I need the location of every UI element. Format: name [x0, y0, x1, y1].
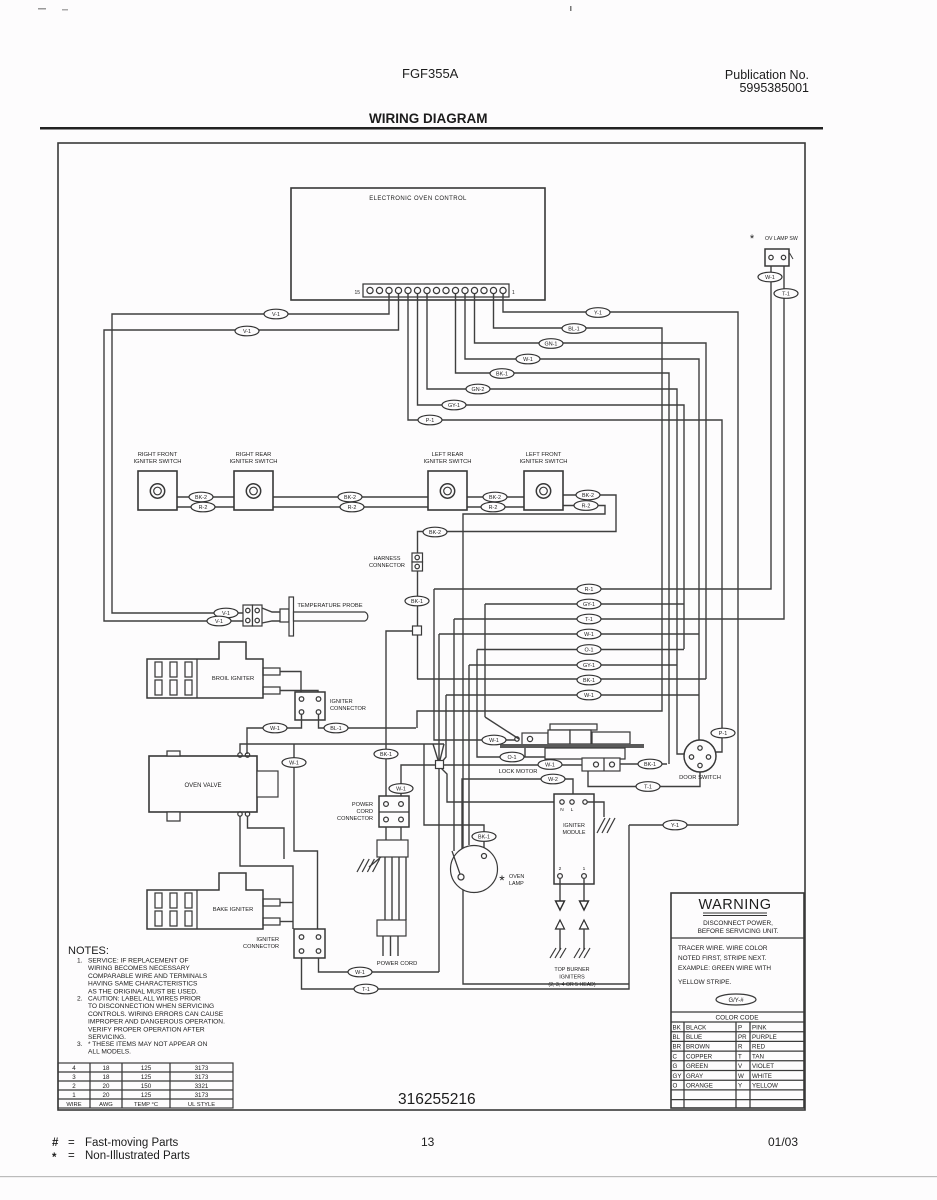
- svg-text:Fast-moving Parts: Fast-moving Parts: [85, 1137, 179, 1149]
- wire label R-2: [574, 501, 598, 511]
- svg-text:OVEN: OVEN: [509, 874, 524, 880]
- svg-text:5995385001: 5995385001: [739, 81, 809, 95]
- svg-text:*: *: [750, 233, 755, 245]
- wire module to ground: [587, 802, 604, 817]
- wire label W-1: [282, 758, 306, 768]
- wire BK-1 row7 to power connector: [386, 631, 412, 801]
- svg-text:W-1: W-1: [289, 761, 299, 767]
- igniter switch RIGHT REAR: [234, 471, 273, 510]
- svg-text:BROIL IGNITER: BROIL IGNITER: [212, 676, 254, 682]
- svg-text:BL-1: BL-1: [330, 726, 341, 732]
- svg-text:CAUTION: LABEL ALL WIRE: CAUTION: LABEL ALL WIRES PRIOR: [88, 996, 201, 1003]
- wire label W-1: [577, 629, 601, 639]
- wire label BK-2: [423, 527, 447, 537]
- wire label BK-1: [638, 759, 662, 769]
- igniter module: [554, 794, 594, 884]
- svg-text:LEFT REAR: LEFT REAR: [432, 452, 464, 458]
- wire label T-1: [636, 782, 660, 792]
- wire label BK-1: [577, 675, 601, 685]
- title underline rule: [40, 127, 823, 130]
- wire label Y-1: [586, 308, 610, 318]
- svg-text:SERVICING.: SERVICING.: [88, 1034, 126, 1041]
- svg-text:O-1: O-1: [508, 755, 517, 761]
- wire label BK-2: [189, 492, 213, 502]
- wire Y-1 pin1: [503, 294, 738, 825]
- svg-text:125: 125: [141, 1074, 152, 1081]
- svg-text:AS THE ORIGINAL MUST BE U: AS THE ORIGINAL MUST BE USED.: [88, 988, 198, 995]
- wire GY-1 ladder row6: [469, 664, 677, 666]
- wire O-1 ladder row5: [477, 649, 684, 651]
- temperature probe connector: [243, 605, 253, 626]
- svg-text:WIRE: WIRE: [66, 1102, 81, 1108]
- wire label R-2: [481, 502, 505, 512]
- svg-text:BK-1: BK-1: [583, 678, 595, 684]
- svg-text:TEMP °C: TEMP °C: [134, 1102, 158, 1108]
- wire label T-1: [577, 614, 601, 624]
- svg-text:W-1: W-1: [270, 726, 280, 732]
- svg-text:COMPARABLE WIRE AND TERMINA: COMPARABLE WIRE AND TERMINALS: [88, 973, 208, 980]
- wire label W-1: [348, 967, 372, 977]
- svg-text:4: 4: [72, 1065, 76, 1072]
- svg-text:G: G: [673, 1063, 678, 1070]
- svg-text:BK-1: BK-1: [644, 762, 656, 768]
- wire label BK-2: [483, 492, 507, 502]
- svg-text:W-1: W-1: [545, 763, 555, 769]
- wire BK-1 harness down: [417, 571, 419, 679]
- svg-text:IGNITER SWITCH: IGNITER SWITCH: [520, 459, 568, 465]
- svg-text:NOTED FIRST, STRIPE NEXT.: NOTED FIRST, STRIPE NEXT.: [678, 955, 767, 962]
- svg-text:LEFT FRONT: LEFT FRONT: [526, 452, 562, 458]
- color code table: [671, 1031, 804, 1033]
- svg-text:PURPLE: PURPLE: [752, 1034, 777, 1041]
- wire label BK-1: [374, 749, 398, 759]
- svg-text:Non-Illustrated Parts: Non-Illustrated Parts: [85, 1150, 190, 1162]
- svg-text:T-1: T-1: [644, 785, 652, 791]
- svg-text:#: #: [52, 1137, 59, 1149]
- svg-text:NOTES:: NOTES:: [68, 945, 109, 957]
- wire label O-1: [500, 752, 524, 762]
- chassis ground power cord: [369, 857, 381, 867]
- wire label R-2: [340, 502, 364, 512]
- svg-text:WHITE: WHITE: [752, 1073, 772, 1080]
- wire row1 down to lock motor: [434, 589, 481, 740]
- svg-text:GY-1: GY-1: [448, 403, 460, 409]
- svg-text:EXAMPLE: GREEN WIRE WIT: EXAMPLE: GREEN WIRE WITH: [678, 965, 771, 972]
- wire label GY-1: [577, 599, 601, 609]
- svg-text:RIGHT FRONT: RIGHT FRONT: [138, 452, 178, 458]
- wire Y-1 horizontal: [629, 824, 738, 826]
- wire label BL-1: [324, 723, 348, 733]
- svg-text:125: 125: [141, 1092, 152, 1099]
- svg-text:BK-1: BK-1: [496, 372, 508, 378]
- svg-text:W-1: W-1: [489, 738, 499, 744]
- wire label W-1: [482, 735, 506, 745]
- svg-text:BK-2: BK-2: [344, 495, 356, 501]
- svg-text:TEMPERATURE PROBE: TEMPERATURE PROBE: [297, 603, 362, 609]
- wire BK-1 ladder row7: [417, 678, 706, 680]
- svg-text:3321: 3321: [195, 1083, 209, 1090]
- svg-text:CONNECTOR: CONNECTOR: [330, 706, 366, 712]
- svg-text:IGNITER: IGNITER: [330, 699, 353, 705]
- wire broil igniter to connector: [280, 672, 301, 693]
- wire T-1 to Y-1 junction: [302, 825, 630, 989]
- svg-text:IGNITER: IGNITER: [256, 937, 279, 943]
- wire W-2 to igniter module L: [462, 779, 573, 874]
- svg-text:CORD: CORD: [357, 809, 373, 815]
- svg-text:Y-1: Y-1: [671, 823, 679, 829]
- wire label W-1: [263, 723, 287, 733]
- wire bake igniter stub2: [280, 921, 293, 923]
- svg-text:*: *: [52, 1152, 57, 1164]
- svg-text:1: 1: [512, 290, 515, 296]
- igniter switch RIGHT FRONT: [138, 471, 177, 510]
- svg-text:2: 2: [559, 866, 562, 872]
- svg-text:PINK: PINK: [752, 1024, 767, 1031]
- wire BK-1 lock switch right: [620, 763, 667, 765]
- junction node harness: [413, 626, 422, 635]
- wire row2 down: [484, 604, 486, 717]
- control board pins 1-15: [367, 287, 373, 293]
- svg-text:=: =: [68, 1150, 75, 1162]
- svg-text:TO DISCONNECTION WHEN SERVI: TO DISCONNECTION WHEN SERVICING: [88, 1003, 214, 1010]
- wire label BK-1: [472, 832, 496, 842]
- warning box: [671, 893, 804, 1108]
- svg-text:GY-1: GY-1: [583, 602, 595, 608]
- wire T-1 lock switch to door switch: [588, 769, 700, 787]
- svg-text:R-2: R-2: [348, 505, 357, 511]
- wire row3 down to oven lamp: [453, 619, 455, 851]
- svg-text:01/03: 01/03: [768, 1135, 798, 1149]
- wire diag into junction: [433, 744, 438, 760]
- outer border of diagram: [58, 143, 805, 1110]
- svg-text:BK-1: BK-1: [478, 835, 490, 841]
- broil igniter: [147, 642, 263, 698]
- svg-text:1: 1: [72, 1092, 76, 1099]
- wire bake igniter stub1: [280, 902, 293, 904]
- wire V-1 pin13 to temp probe: [112, 294, 389, 613]
- svg-text:2: 2: [72, 1083, 76, 1090]
- svg-text:TOP BURNER: TOP BURNER: [554, 967, 589, 973]
- wire GN-2 pin9 to door switch: [427, 294, 688, 754]
- igniter switch LEFT REAR: [428, 471, 467, 510]
- svg-text:P: P: [738, 1024, 742, 1031]
- svg-text:CONNECTOR: CONNECTOR: [337, 816, 373, 822]
- svg-text:Y: Y: [738, 1083, 742, 1090]
- wire W-1 bake connector: [319, 958, 440, 972]
- svg-text:POWER CORD: POWER CORD: [377, 961, 418, 967]
- svg-text:GY: GY: [673, 1073, 682, 1080]
- wire W-1 valve to bake connector: [294, 744, 318, 929]
- svg-text:V-1: V-1: [215, 619, 223, 625]
- svg-text:20: 20: [103, 1083, 110, 1090]
- svg-text:=: =: [68, 1137, 75, 1149]
- wire broil igniter to connector 2: [280, 691, 318, 693]
- wire label W-1: [516, 354, 540, 364]
- svg-text:CONTROLS. WIRING ERRORS C: CONTROLS. WIRING ERRORS CAN CAUSE: [88, 1011, 224, 1018]
- wire label GN-1: [539, 339, 563, 349]
- igniter switch LEFT FRONT: [524, 471, 563, 510]
- svg-text:ORANGE: ORANGE: [686, 1083, 713, 1090]
- svg-text:BK-2: BK-2: [195, 495, 207, 501]
- svg-text:125: 125: [141, 1065, 152, 1072]
- wire label GY-1: [442, 400, 466, 410]
- svg-text:LOCK MOTOR: LOCK MOTOR: [499, 769, 538, 775]
- wire label T-1: [774, 289, 798, 299]
- svg-text:BK-1: BK-1: [380, 752, 392, 758]
- wire label P-1: [711, 728, 735, 738]
- wire T-1 ladder row3 to oven lamp switch: [454, 266, 784, 619]
- svg-text:T-1: T-1: [782, 292, 790, 298]
- svg-text:IGNITERS: IGNITERS: [559, 975, 585, 981]
- svg-text:Publication No.: Publication No.: [725, 68, 809, 82]
- svg-text:COLOR CODE: COLOR CODE: [716, 1015, 759, 1022]
- control board pin strip: [363, 284, 509, 297]
- wire label W-1: [577, 690, 601, 700]
- svg-text:IGNITER SWITCH: IGNITER SWITCH: [230, 459, 278, 465]
- svg-text:BK: BK: [673, 1024, 682, 1031]
- chassis ground igniter module: [597, 818, 605, 833]
- wire valve B1 to bake connector: [240, 816, 293, 929]
- wire W-1 ladder row4: [439, 633, 699, 635]
- svg-text:O-1: O-1: [585, 648, 594, 654]
- svg-text:T-1: T-1: [362, 987, 370, 993]
- bake igniter: [147, 873, 263, 929]
- power cord wires: [384, 857, 386, 920]
- svg-text:O: O: [673, 1083, 678, 1090]
- svg-text:2.: 2.: [77, 996, 83, 1003]
- svg-text:PR: PR: [738, 1034, 747, 1041]
- svg-text:FGF355A: FGF355A: [402, 66, 459, 81]
- svg-text:WIRING DIAGRAM: WIRING DIAGRAM: [369, 111, 488, 126]
- lock switch: [582, 758, 620, 771]
- wire BK-2 to harness connector: [418, 495, 617, 553]
- svg-text:316255216: 316255216: [398, 1091, 476, 1108]
- svg-text:R: R: [738, 1044, 743, 1051]
- svg-text:IMPROPER AND DANGEROUS OPER: IMPROPER AND DANGEROUS OPERATION.: [88, 1019, 225, 1026]
- wire GY-1 ladder row2: [485, 603, 684, 605]
- svg-text:RED: RED: [752, 1044, 766, 1051]
- svg-text:ALL MODELS.: ALL MODELS.: [88, 1049, 131, 1056]
- power cord strain relief: [385, 827, 387, 840]
- svg-text:HAVING SAME CHARACTERISTICS: HAVING SAME CHARACTERISTICS: [88, 981, 198, 988]
- wire BK-1 pin6: [456, 294, 670, 764]
- svg-text:1: 1: [583, 866, 586, 872]
- wire label W-2: [541, 774, 565, 784]
- svg-text:T-1: T-1: [585, 617, 593, 623]
- wire label V-1: [214, 608, 238, 618]
- svg-text:BEFORE SERVICING UNIT.: BEFORE SERVICING UNIT.: [698, 928, 779, 935]
- wire junction down to oven lamp: [438, 768, 440, 972]
- wire diagonal to lock motor: [485, 717, 519, 739]
- svg-text:BR: BR: [673, 1044, 682, 1051]
- wire label V-1: [207, 616, 231, 626]
- wire P-1 pin11 to door switch: [408, 294, 722, 752]
- svg-text:BK-2: BK-2: [489, 495, 501, 501]
- wire valve T1 right: [240, 744, 444, 753]
- wire label V-1: [264, 309, 288, 319]
- wire label G/Y-# example: [716, 994, 756, 1005]
- svg-text:CONNECTOR: CONNECTOR: [243, 944, 279, 950]
- wire GN-1 pin4: [475, 294, 707, 679]
- wire W-1 junction to lock switch: [443, 764, 582, 766]
- wire label O-1: [577, 645, 601, 655]
- svg-text:IGNITER: IGNITER: [563, 823, 585, 829]
- svg-text:R-2: R-2: [582, 504, 591, 510]
- wire label R-1: [577, 584, 601, 594]
- wire probe taper bottom: [262, 621, 286, 623]
- svg-text:3173: 3173: [195, 1074, 209, 1081]
- wire label Y-1: [663, 820, 687, 830]
- wire label BK-2: [576, 490, 600, 500]
- svg-text:3.: 3.: [77, 1041, 83, 1048]
- svg-text:3: 3: [72, 1074, 76, 1081]
- svg-text:GRAY: GRAY: [686, 1073, 703, 1080]
- wire W-1 to lock motor terminal: [481, 739, 515, 741]
- svg-text:YELLOW STRIPE.: YELLOW STRIPE.: [678, 979, 731, 986]
- svg-text:MODULE: MODULE: [562, 830, 585, 836]
- svg-text:L: L: [571, 807, 574, 813]
- svg-text:ELECTRONIC OVEN CONTROL: ELECTRONIC OVEN CONTROL: [369, 196, 467, 202]
- svg-text:3173: 3173: [195, 1065, 209, 1072]
- wire label W-1: [389, 784, 413, 794]
- svg-text:Y-1: Y-1: [594, 311, 602, 317]
- svg-text:TAN: TAN: [752, 1053, 764, 1060]
- svg-text:W-1: W-1: [523, 357, 533, 363]
- wire label BL-1: [562, 324, 586, 334]
- svg-text:18: 18: [103, 1074, 110, 1081]
- wire label W-1: [758, 272, 782, 282]
- svg-text:BAKE IGNITER: BAKE IGNITER: [213, 907, 254, 913]
- wire W-1 connector to oven valve: [247, 714, 302, 754]
- svg-text:W: W: [738, 1073, 744, 1080]
- svg-text:W-1: W-1: [584, 632, 594, 638]
- svg-text:LAMP: LAMP: [509, 881, 524, 887]
- svg-text:CONNECTOR: CONNECTOR: [369, 563, 405, 569]
- junction node center: [436, 761, 444, 769]
- wire row5 down to lock motor O-1: [477, 650, 545, 758]
- wire label GN-2: [466, 384, 490, 394]
- svg-text:R-2: R-2: [199, 505, 208, 511]
- svg-text:GREEN: GREEN: [686, 1063, 708, 1070]
- electronic oven control box: [291, 188, 545, 300]
- svg-text:18: 18: [103, 1065, 110, 1072]
- svg-text:WARNING: WARNING: [698, 897, 771, 913]
- wire R-1 ladder row1 to oven lamp switch: [434, 266, 771, 589]
- oven lamp switch: [765, 249, 789, 266]
- svg-text:W-1: W-1: [355, 970, 365, 976]
- wire W-1 ladder row8: [446, 694, 699, 696]
- stray scan marks top: [570, 6, 572, 11]
- wire gauge table: [58, 1063, 233, 1108]
- svg-text:OVEN VALVE: OVEN VALVE: [184, 783, 221, 789]
- wire O-1 stub: [524, 748, 526, 757]
- svg-text:(2, 3, 4 OR 5 HEAD): (2, 3, 4 OR 5 HEAD): [548, 982, 596, 988]
- svg-text:15: 15: [354, 290, 360, 296]
- wire row8 down to igniter module N: [441, 695, 446, 763]
- svg-text:HARNESS: HARNESS: [373, 556, 400, 562]
- svg-text:RIGHT REAR: RIGHT REAR: [236, 452, 272, 458]
- svg-text:R-2: R-2: [489, 505, 498, 511]
- igniter connector (bake): [294, 929, 325, 958]
- wire label BK-1: [405, 596, 429, 606]
- wire R-2 run down right side: [463, 506, 629, 985]
- svg-text:COPPER: COPPER: [686, 1053, 713, 1060]
- svg-text:TRACER WIRE. WIRE COLOR: TRACER WIRE. WIRE COLOR: [678, 945, 768, 952]
- wire R-2 igniter switch chain: [176, 506, 562, 508]
- svg-text:V-1: V-1: [272, 312, 280, 318]
- svg-text:150: 150: [141, 1083, 152, 1090]
- wire label GY-1: [577, 660, 601, 670]
- svg-text:BK-2: BK-2: [582, 493, 594, 499]
- svg-text:13: 13: [421, 1135, 435, 1149]
- svg-text:3173: 3173: [195, 1092, 209, 1099]
- svg-text:BROWN: BROWN: [686, 1044, 710, 1051]
- svg-text:T: T: [738, 1053, 742, 1060]
- svg-text:1.: 1.: [77, 958, 83, 965]
- svg-text:VIOLET: VIOLET: [752, 1063, 774, 1070]
- wire V-1 pin12 to temp probe: [104, 294, 399, 621]
- wire label BK-2: [338, 492, 362, 502]
- svg-text:GY-1: GY-1: [583, 663, 595, 669]
- svg-text:BLUE: BLUE: [686, 1034, 702, 1041]
- door switch: [684, 740, 716, 772]
- svg-text:BK-1: BK-1: [411, 599, 423, 605]
- svg-text:R-1: R-1: [585, 587, 594, 593]
- wire label P-1: [418, 415, 442, 425]
- svg-text:*: *: [499, 872, 505, 888]
- wire junction to power connector: [401, 765, 435, 801]
- svg-text:W-1: W-1: [396, 787, 406, 793]
- svg-text:N: N: [560, 807, 564, 813]
- wire W-1 pin5: [465, 294, 699, 748]
- svg-text:IGNITER SWITCH: IGNITER SWITCH: [424, 459, 472, 465]
- svg-text:W-1: W-1: [765, 275, 775, 281]
- svg-text:P-1: P-1: [426, 418, 434, 424]
- wire BL-1 connector: [319, 714, 417, 728]
- wire row6 down: [468, 665, 470, 845]
- svg-text:P-1: P-1: [719, 731, 727, 737]
- oven valve: [149, 756, 257, 812]
- wire label W-1: [538, 760, 562, 770]
- bottom rule: [0, 1176, 937, 1177]
- wire label BK-1: [490, 369, 514, 379]
- svg-text:POWER: POWER: [352, 802, 373, 808]
- svg-text:OV LAMP SW: OV LAMP SW: [765, 236, 798, 242]
- wire label R-2: [191, 502, 215, 512]
- oven lamp: [451, 846, 498, 893]
- svg-text:BLACK: BLACK: [686, 1024, 707, 1031]
- wire GY-1 pin10: [418, 294, 685, 649]
- svg-text:DISCONNECT POWER,: DISCONNECT POWER,: [703, 920, 773, 927]
- wire row4 down through junction: [438, 634, 440, 761]
- svg-text:C: C: [673, 1053, 678, 1060]
- svg-text:GN-2: GN-2: [472, 387, 485, 393]
- svg-text:V-1: V-1: [243, 329, 251, 335]
- igniter connector (broil): [295, 692, 325, 720]
- svg-text:BK-2: BK-2: [429, 530, 441, 536]
- wire label V-1: [235, 326, 259, 336]
- svg-text:W-1: W-1: [584, 693, 594, 699]
- wire BK-2 igniter switch chain: [176, 496, 562, 498]
- svg-text:20: 20: [103, 1092, 110, 1099]
- svg-text:* THESE ITEMS MAY NOT APP: * THESE ITEMS MAY NOT APPEAR ON: [88, 1041, 208, 1048]
- wire label T-1: [354, 984, 378, 994]
- svg-text:BL: BL: [673, 1034, 681, 1041]
- svg-text:WIRING BECOMES NECESSARY: WIRING BECOMES NECESSARY: [88, 965, 190, 972]
- svg-text:AWG: AWG: [99, 1102, 113, 1108]
- svg-text:YELLOW: YELLOW: [752, 1083, 778, 1090]
- svg-text:VERIFY PROPER OPERATION AFT: VERIFY PROPER OPERATION AFTER: [88, 1026, 205, 1033]
